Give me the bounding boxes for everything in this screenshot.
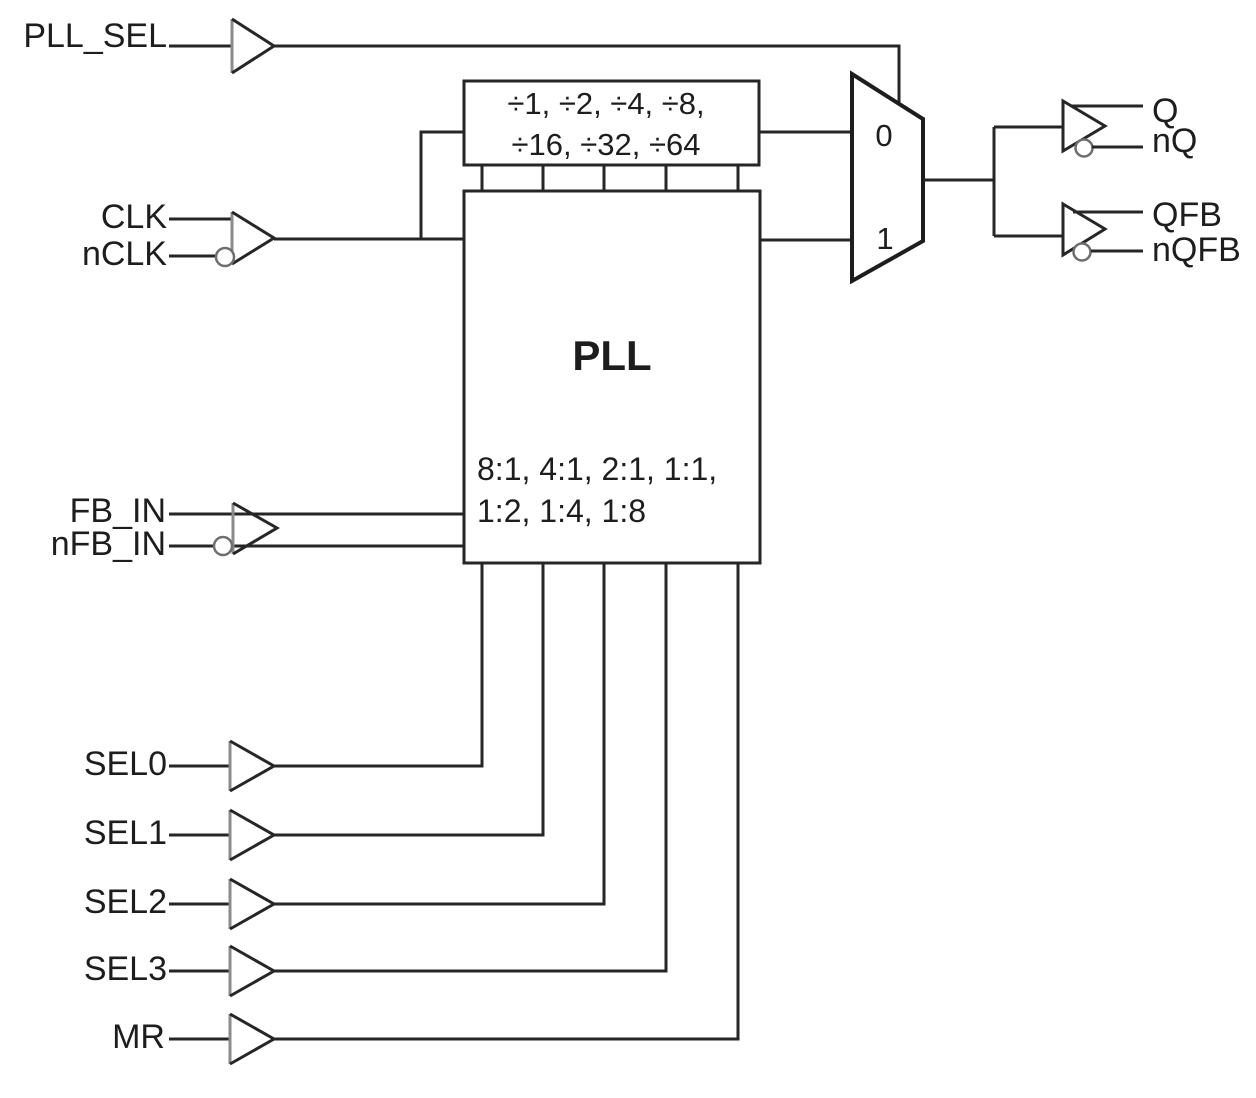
svg-text:0: 0 bbox=[875, 118, 892, 153]
svg-text:nQFB: nQFB bbox=[1152, 231, 1241, 269]
bubble nFB_IN bbox=[214, 537, 232, 555]
wire SEL2 to PLL bbox=[274, 563, 604, 904]
svg-text:nFB_IN: nFB_IN bbox=[51, 525, 166, 563]
wire nFB_IN to PLL bbox=[169, 545, 464, 548]
svg-text:SEL1: SEL1 bbox=[84, 814, 167, 852]
bus tick 2 bbox=[542, 165, 545, 191]
mux bbox=[852, 74, 923, 281]
wire nCLK input bbox=[169, 255, 217, 258]
svg-text:SEL3: SEL3 bbox=[84, 950, 167, 988]
svg-text:SEL0: SEL0 bbox=[84, 745, 167, 783]
wire PLL to mux input 1 bbox=[760, 239, 852, 242]
wire SEL3 to PLL bbox=[274, 563, 666, 971]
buffer SEL3 bbox=[230, 946, 274, 996]
bubble nCLK bbox=[216, 248, 234, 266]
buffer QFB/nQFB bbox=[1063, 204, 1105, 255]
bus tick 3 bbox=[603, 165, 606, 191]
svg-text:÷1, ÷2, ÷4, ÷8,: ÷1, ÷2, ÷4, ÷8, bbox=[507, 86, 704, 121]
wire SEL0 input bbox=[169, 765, 230, 768]
wire to Q buffer bbox=[994, 126, 1063, 129]
buffer SEL1 bbox=[230, 810, 274, 860]
wire nQFB output bbox=[1091, 250, 1143, 253]
svg-text:8:1, 4:1, 2:1, 1:1,: 8:1, 4:1, 2:1, 1:1, bbox=[477, 451, 717, 487]
wire PLL_SEL to mux select bbox=[274, 46, 899, 104]
svg-text:PLL_SEL: PLL_SEL bbox=[23, 17, 167, 55]
wire PLL_SEL input bbox=[169, 45, 232, 48]
bubble nQFB bbox=[1074, 244, 1091, 261]
buffer SEL0 bbox=[230, 741, 274, 791]
svg-text:CLK: CLK bbox=[101, 198, 167, 236]
wire SEL3 input bbox=[169, 970, 230, 973]
wire Q output bbox=[1071, 105, 1143, 108]
wire MR to PLL bbox=[274, 563, 738, 1039]
svg-text:QFB: QFB bbox=[1152, 196, 1222, 234]
bus tick 4 bbox=[665, 165, 668, 191]
wire FB_IN to PLL bbox=[169, 513, 464, 516]
wire SEL1 to PLL bbox=[274, 563, 543, 835]
svg-text:SEL2: SEL2 bbox=[84, 883, 167, 921]
divider box bbox=[464, 81, 759, 165]
bus tick 5 bbox=[737, 165, 740, 191]
buffer MR bbox=[230, 1014, 274, 1064]
svg-text:1: 1 bbox=[876, 221, 893, 256]
wire output branch bbox=[993, 127, 996, 236]
svg-text:1:2, 1:4, 1:8: 1:2, 1:4, 1:8 bbox=[477, 493, 646, 529]
svg-text:PLL: PLL bbox=[572, 332, 651, 379]
wire mux output bbox=[923, 179, 994, 182]
buffer SEL2 bbox=[230, 879, 274, 929]
bus tick 1 bbox=[481, 165, 484, 191]
wire nQ output bbox=[1092, 146, 1143, 149]
wire to QFB buffer bbox=[994, 235, 1063, 238]
wire SEL1 input bbox=[169, 834, 230, 837]
buffer CLK/nCLK bbox=[232, 212, 274, 264]
svg-text:nQ: nQ bbox=[1152, 122, 1197, 160]
buffer PLL_SEL bbox=[232, 19, 274, 73]
wire SEL2 input bbox=[169, 903, 230, 906]
bubble nQ bbox=[1076, 140, 1093, 157]
wire CLK input bbox=[169, 218, 232, 221]
buffer Q/nQ bbox=[1063, 101, 1105, 151]
wire SEL0 to PLL bbox=[274, 563, 482, 766]
wire CLK buffer output to PLL bbox=[274, 238, 463, 241]
wire MR input bbox=[169, 1038, 230, 1041]
svg-text:MR: MR bbox=[112, 1018, 165, 1056]
buffer FB_IN/nFB_IN bbox=[233, 503, 277, 554]
svg-text:nCLK: nCLK bbox=[82, 235, 167, 273]
wire CLK branch to divider bbox=[421, 132, 464, 239]
PLL box bbox=[464, 191, 760, 563]
wire divider to mux input 0 bbox=[759, 131, 852, 134]
svg-text:÷16, ÷32, ÷64: ÷16, ÷32, ÷64 bbox=[512, 127, 701, 162]
wire QFB output bbox=[1073, 211, 1143, 214]
